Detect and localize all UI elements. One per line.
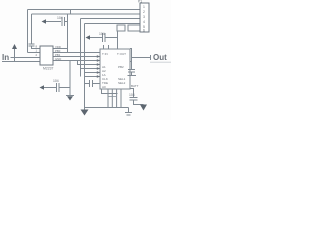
svg-text:A0: A0 <box>102 85 106 89</box>
svg-text:4: 4 <box>143 20 145 24</box>
svg-text:104: 104 <box>57 16 63 20</box>
svg-text:T OUT: T OUT <box>117 52 126 56</box>
svg-text:2: 2 <box>143 10 145 14</box>
svg-text:104: 104 <box>53 79 59 83</box>
svg-text:M2237: M2237 <box>43 67 53 71</box>
svg-text:PB2: PB2 <box>118 65 124 69</box>
svg-text:P1: P1 <box>138 0 142 4</box>
svg-text:104: 104 <box>129 93 135 97</box>
svg-text:104: 104 <box>99 32 105 36</box>
svg-text:GND: GND <box>55 57 61 61</box>
svg-text:1: 1 <box>143 5 145 9</box>
svg-text:BATT: BATT <box>131 84 139 88</box>
svg-text:3: 3 <box>143 15 145 19</box>
svg-text:6: 6 <box>143 29 145 33</box>
svg-text:T IN: T IN <box>102 52 108 56</box>
svg-text:In: In <box>2 53 9 62</box>
svg-text:Out: Out <box>153 53 167 62</box>
svg-text:SEL2: SEL2 <box>118 81 126 85</box>
